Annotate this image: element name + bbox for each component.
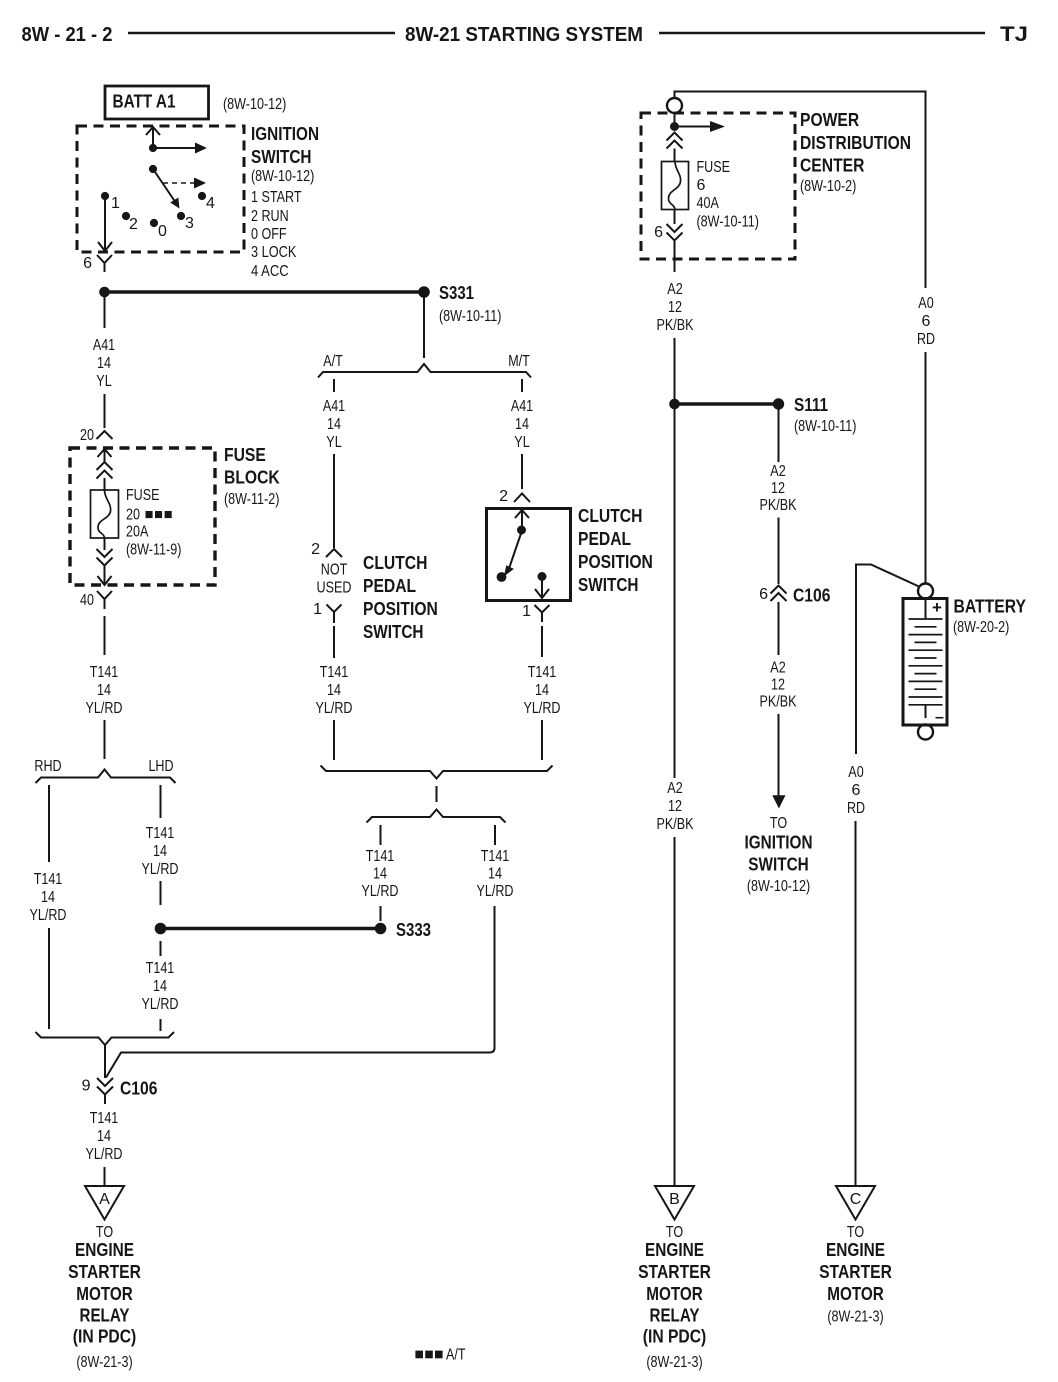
svg-text:YL/RD: YL/RD [524,700,561,717]
svg-text:TO: TO [96,1224,113,1241]
svg-text:C106: C106 [120,1079,157,1099]
switch lower-right contact dot [538,573,546,581]
svg-text:NOT: NOT [321,562,348,579]
svg-text:YL/RD: YL/RD [86,1146,123,1163]
bold wire to splice S333 [161,927,378,931]
svg-text:USED: USED [317,580,352,597]
svg-text:6: 6 [852,782,861,799]
split left branch tick [380,825,382,845]
svg-text:FUSE: FUSE [224,445,266,465]
svg-text:2: 2 [499,488,508,505]
wire down to triangle C [855,821,857,1186]
wire from eyelet to splice dot [674,113,676,126]
fuse 6 body [662,162,689,210]
off-page connector triangle A [85,1186,124,1220]
A/T marker squares [146,511,153,518]
connector symbol pin1 A/T [327,605,342,624]
svg-text:(8W-10-12): (8W-10-12) [251,168,314,185]
svg-text:1: 1 [313,601,322,618]
switch upper contact dot [518,526,526,534]
svg-text:T141: T141 [528,664,557,681]
svg-text:6: 6 [654,224,663,241]
svg-text:20: 20 [126,507,140,524]
battery plates [909,619,943,705]
svg-text:6: 6 [759,586,768,603]
svg-text:14: 14 [41,889,55,906]
A/T branch tick [333,379,335,392]
ignition switch position contact 3 [177,212,184,219]
svg-text:14: 14 [373,866,387,883]
svg-text:S111: S111 [794,395,828,415]
svg-text:YL/RD: YL/RD [362,883,399,900]
svg-text:YL/RD: YL/RD [316,700,353,717]
second split brace [367,810,506,823]
svg-text:12: 12 [771,480,785,497]
clutch pedal position switch box [487,509,571,601]
wire out of PDC [674,241,676,273]
svg-text:CLUTCH: CLUTCH [363,553,427,573]
eyelet terminal at PDC [667,98,682,113]
splice node at ignition output [100,287,110,297]
battery feed branch to starter motor [856,565,920,755]
svg-text:TO: TO [847,1224,864,1241]
svg-text:(8W-10-11): (8W-10-11) [794,418,856,435]
ignition switch position contact 4 [198,192,205,199]
switch exit wire arrow [535,580,549,598]
fuse 20 body [91,490,119,538]
svg-text:14: 14 [153,978,167,995]
svg-text:2: 2 [311,541,320,558]
svg-text:SWITCH: SWITCH [578,575,639,595]
svg-text:2 RUN: 2 RUN [251,208,289,225]
header rule right [659,32,985,35]
svg-text:2: 2 [129,216,138,233]
wire tick below splice [104,297,106,328]
fuse block dashed box [70,448,215,585]
off-page connector triangle B [655,1186,694,1220]
svg-text:DISTRIBUTION: DISTRIBUTION [800,133,911,153]
wire from PDC feed to battery (top run) [675,92,926,289]
ignition switch position contact 1 [101,192,108,199]
svg-text:A/T: A/T [323,353,343,370]
fuse block exit arrow [98,565,112,585]
svg-text:(8W-21-3): (8W-21-3) [646,1354,702,1371]
wire below merge [104,1045,106,1078]
switch wiper arm with arrow [510,532,522,567]
A/T wire to merge [333,720,335,760]
svg-text:9: 9 [82,1078,91,1095]
ignition switch dashed acc arrow [163,182,194,184]
svg-text:TO: TO [666,1224,683,1241]
S111 wire down [778,409,780,462]
svg-text:20A: 20A [126,524,149,541]
wire to off-page triangle A [104,1167,106,1186]
double chevron connector inside fuse block [97,462,113,479]
double chevron connector in PDC [667,133,683,149]
svg-text:(IN PDC): (IN PDC) [643,1327,707,1347]
svg-text:YL/RD: YL/RD [86,700,123,717]
svg-text:(8W-21-3): (8W-21-3) [827,1309,883,1326]
merged wire tick [436,786,438,802]
fuse 20 element squiggle [98,490,111,538]
svg-text:14: 14 [97,1128,111,1145]
svg-text:20: 20 [80,427,94,444]
svg-text:T141: T141 [34,871,63,888]
battery negative stem [925,705,927,718]
svg-text:ENGINE: ENGINE [645,1240,704,1260]
M/T wire down [521,454,523,489]
connector chevron above switch [514,494,530,503]
svg-text:MOTOR: MOTOR [827,1284,884,1304]
wire to ignition switch arrow [778,714,780,796]
svg-text:YL: YL [326,434,341,451]
svg-text:12: 12 [668,299,682,316]
svg-text:SWITCH: SWITCH [363,622,424,642]
fuse block entry arrow [98,449,112,462]
svg-text:C106: C106 [793,586,830,606]
wire below fuse 6 [674,210,676,225]
svg-text:14: 14 [97,682,111,699]
ignition switch dashed box [77,126,244,252]
svg-text:YL/RD: YL/RD [142,861,179,878]
svg-text:+: + [932,598,942,617]
svg-text:(8W-10-2): (8W-10-2) [800,178,856,195]
svg-text:3 LOCK: 3 LOCK [251,244,297,261]
LHD wire tick above splice [160,881,162,905]
svg-text:MOTOR: MOTOR [646,1284,703,1304]
svg-text:0 OFF: 0 OFF [251,226,287,243]
svg-text:B: B [669,1191,680,1208]
legend A/T marker squares [415,1351,423,1359]
svg-text:FUSE: FUSE [697,159,731,176]
svg-text:FUSE: FUSE [126,487,160,504]
ignition switch position contact 0 [150,219,157,226]
wire below fuse block [104,616,106,655]
svg-text:YL: YL [96,373,111,390]
svg-text:4: 4 [206,195,215,212]
ignition switch contact dot lower (wiper pivot) [149,165,156,172]
wire down to C106 [778,518,780,585]
svg-text:–: – [935,709,944,726]
svg-text:(8W-10-12): (8W-10-12) [747,878,810,895]
svg-text:MOTOR: MOTOR [76,1284,133,1304]
fuse box BATT A1 [105,86,209,119]
svg-text:A2: A2 [667,780,682,797]
svg-text:T141: T141 [320,664,349,681]
svg-text:PEDAL: PEDAL [578,529,631,549]
ignition switch contact dot upper [149,144,156,151]
svg-text:A41: A41 [93,337,115,354]
svg-text:YL/RD: YL/RD [30,907,67,924]
splice dot inside PDC [671,123,679,131]
svg-text:RELAY: RELAY [650,1306,700,1326]
svg-text:A41: A41 [511,398,533,415]
wire from label to battery positive [925,352,927,584]
svg-text:1 START: 1 START [251,189,302,206]
splice S333 [375,923,386,934]
svg-text:40A: 40A [697,195,720,212]
svg-text:SWITCH: SWITCH [748,855,809,875]
splice S331 [419,287,430,298]
svg-text:12: 12 [668,798,682,815]
svg-text:1: 1 [522,603,531,620]
svg-text:6: 6 [922,313,931,330]
double chevron connector below fuse [97,549,113,566]
wire below fuse [104,538,106,550]
left branch tick to S333 [380,906,382,921]
svg-text:T141: T141 [481,848,510,865]
A/T wire below [333,626,335,658]
svg-text:PK/BK: PK/BK [760,694,797,711]
RHD/LHD merge brace [36,1032,175,1045]
fuse 6 element squiggle [668,162,680,210]
svg-text:(8W-21-3): (8W-21-3) [76,1354,132,1371]
svg-text:PK/BK: PK/BK [760,497,797,514]
svg-text:T141: T141 [90,664,119,681]
not used connector chevron [326,549,342,557]
svg-text:(8W-11-2): (8W-11-2) [224,491,279,508]
svg-text:14: 14 [327,682,341,699]
svg-text:(8W-11-9): (8W-11-9) [126,542,181,559]
svg-text:IGNITION: IGNITION [251,124,319,144]
svg-text:STARTER: STARTER [638,1262,711,1282]
arrowhead to ignition switch [772,795,785,808]
svg-text:A2: A2 [667,281,682,298]
svg-text:(8W-10-12): (8W-10-12) [223,96,286,113]
svg-text:A2: A2 [770,463,785,480]
ignition switch wiper arm toward LOCK [153,169,176,203]
svg-text:M/T: M/T [508,353,530,370]
wire to fuse block [104,394,106,428]
connector symbol below ignition switch [97,255,112,272]
off-page connector triangle C [836,1186,875,1220]
bold wire to splice S331 [105,290,421,294]
header rule left [128,32,395,35]
svg-text:RD: RD [847,800,865,817]
svg-text:T141: T141 [146,960,175,977]
M/T wire below switch [541,626,543,657]
svg-text:T141: T141 [366,848,395,865]
svg-text:(8W-10-11): (8W-10-11) [697,214,759,231]
svg-text:PEDAL: PEDAL [363,576,416,596]
switch entry arrow [515,510,529,527]
svg-text:RELAY: RELAY [80,1306,130,1326]
battery positive eyelet [918,584,933,599]
wire down to splice S111 [674,338,676,778]
RHD/LHD split brace [36,770,176,784]
svg-text:SWITCH: SWITCH [251,147,312,167]
svg-text:14: 14 [97,355,111,372]
svg-text:T141: T141 [90,1110,119,1127]
ignition switch run-feed arrow [153,147,195,149]
A/T M/T merge brace [321,766,553,779]
connector half chevron above fuse block [97,431,113,439]
svg-text:12: 12 [771,677,785,694]
svg-text:14: 14 [515,416,529,433]
battery positive stem [925,599,927,620]
wire to RHD/LHD split [104,720,106,759]
svg-text:LHD: LHD [148,758,173,775]
battery negative eyelet [918,725,933,740]
svg-text:C: C [850,1191,862,1208]
wire below C106 [778,602,780,655]
svg-text:A2: A2 [770,660,785,677]
svg-text:0: 0 [158,223,167,240]
svg-text:14: 14 [153,843,167,860]
LHD branch tick [160,785,162,818]
svg-text:IGNITION: IGNITION [745,833,813,853]
svg-text:14: 14 [488,866,502,883]
svg-text:A0: A0 [918,295,933,312]
svg-text:TJ: TJ [1000,23,1028,46]
svg-text:BATTERY: BATTERY [954,597,1027,617]
RHD branch wire lower [48,928,50,1029]
svg-text:A0: A0 [848,764,863,781]
M/T wire to merge [541,720,543,760]
A/T M/T split brace [318,364,531,378]
connector C106 double chevron [97,1078,113,1104]
svg-text:T141: T141 [146,825,175,842]
M/T branch tick [521,379,523,392]
svg-text:ENGINE: ENGINE [75,1240,134,1260]
svg-text:6: 6 [83,255,92,272]
svg-text:3: 3 [185,215,194,232]
RHD branch wire upper [48,785,50,862]
svg-text:STARTER: STARTER [68,1262,141,1282]
wire tick below LHD splice [160,941,162,956]
svg-text:14: 14 [535,682,549,699]
double chevron connector below fuse 6 [667,224,683,241]
svg-text:BLOCK: BLOCK [224,468,280,488]
svg-text:A41: A41 [323,398,345,415]
svg-text:14: 14 [327,416,341,433]
connector symbol below switch [535,605,550,622]
connector C106 double chevron up [771,586,787,602]
svg-text:A/T: A/T [446,1347,466,1364]
svg-text:S333: S333 [396,920,431,940]
svg-text:(8W-10-11): (8W-10-11) [439,308,501,325]
ignition switch output wire with down arrow [98,199,112,251]
bold wire to splice S111 [675,402,776,406]
svg-text:RHD: RHD [34,758,61,775]
A/T wire down [333,454,335,548]
svg-text:8W-21 STARTING SYSTEM: 8W-21 STARTING SYSTEM [405,23,643,46]
svg-text:BATT A1: BATT A1 [113,92,176,112]
svg-text:40: 40 [80,592,94,609]
feed arrow to other circuits [675,126,711,128]
svg-text:PK/BK: PK/BK [657,816,694,833]
wire tick above merge brace [160,1019,162,1031]
switch lower-left contact dot [497,573,506,582]
svg-text:POWER: POWER [800,110,859,130]
svg-text:CENTER: CENTER [800,156,864,176]
svg-text:CLUTCH: CLUTCH [578,506,642,526]
svg-text:6: 6 [697,177,706,194]
ignition switch position contact 2 [122,212,129,219]
battery box [903,599,947,726]
split right branch tick [494,825,496,845]
wire from S331 down [423,297,425,358]
svg-text:(8W-20-2): (8W-20-2) [953,619,1009,636]
wire to fuse 20 [104,478,106,490]
splice node left of S333 [155,923,166,934]
wire to fuse 6 [674,149,676,162]
svg-text:YL: YL [514,434,529,451]
svg-text:8W - 21 - 2: 8W - 21 - 2 [22,23,113,46]
splice S111 [773,399,783,409]
svg-text:STARTER: STARTER [819,1262,892,1282]
svg-text:ENGINE: ENGINE [826,1240,885,1260]
splice node at PDC branch [670,399,680,409]
svg-text:TO: TO [770,815,787,832]
svg-text:YL/RD: YL/RD [142,996,179,1013]
svg-text:POSITION: POSITION [578,552,653,572]
connector symbol below fuse block [97,591,112,609]
ignition switch feed wire with up arrow to BATT A1 [146,127,160,148]
svg-text:POSITION: POSITION [363,599,438,619]
svg-text:S331: S331 [439,283,474,303]
svg-text:4 ACC: 4 ACC [251,263,289,280]
svg-text:YL/RD: YL/RD [477,883,514,900]
svg-text:A: A [99,1191,110,1208]
svg-text:PK/BK: PK/BK [657,317,694,334]
power distribution center dashed box [641,113,795,259]
svg-text:(IN PDC): (IN PDC) [73,1327,137,1347]
right branch wire down and across to C106 [106,906,495,1078]
svg-text:1: 1 [111,195,120,212]
svg-text:RD: RD [917,331,935,348]
